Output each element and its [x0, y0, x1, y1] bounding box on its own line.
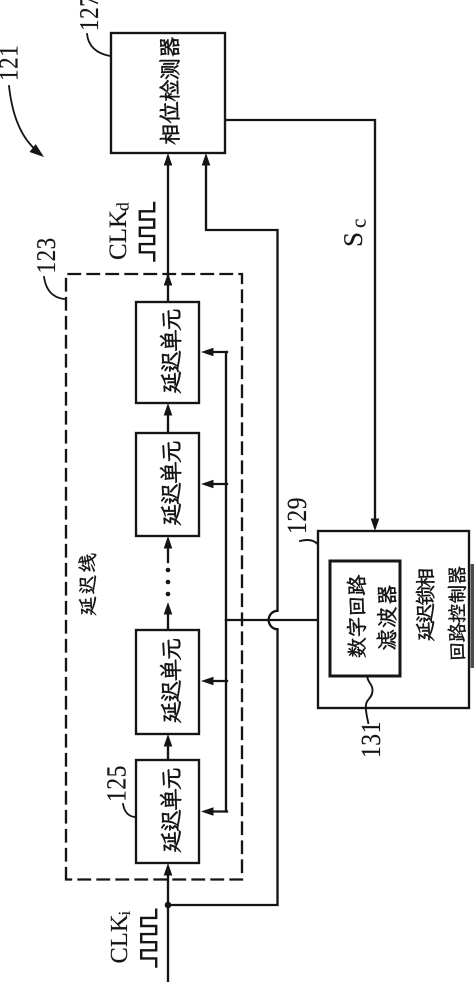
ref number 123	[37, 239, 55, 272]
label 延迟单元 in DU4	[160, 769, 181, 852]
block delay unit DU1	[136, 302, 199, 403]
dashed box delay line 123	[66, 274, 242, 880]
arrowhead into delay unit 4	[164, 863, 173, 876]
label CLKd	[109, 210, 126, 259]
ref number 131	[362, 723, 381, 756]
leader arrow for figure ref 121	[9, 86, 37, 151]
label 数字回路 line1 in filter 131	[347, 575, 366, 657]
block phase detector 127	[111, 33, 225, 153]
arrowhead on CLKd wire at dashed box exit	[164, 273, 173, 286]
label 滤波器 line2 in filter 131	[377, 586, 397, 650]
wire connector from control bus down to controller 129	[226, 619, 318, 621]
arrowhead feed into phase detector	[202, 153, 211, 166]
wire control branch into delay unit 4	[207, 810, 227, 812]
label 延迟单元 in DU2	[160, 442, 181, 525]
block delay unit DU2	[136, 433, 199, 536]
arrowhead control into DU1	[201, 348, 214, 357]
ref number 127	[80, 0, 98, 29]
scan artifact grey band at page edge	[471, 564, 474, 668]
wire ellipsis dots to delay unit 2	[167, 541, 169, 562]
block delay unit DU4 (125)	[136, 760, 199, 863]
ref number 125	[107, 766, 126, 799]
wire control branch into delay unit 1	[207, 351, 227, 353]
leader for 129 to controller box	[300, 540, 318, 544]
arrowhead before ellipsis	[164, 602, 173, 615]
clock waveform glyph CLKi	[141, 910, 156, 967]
label 相位检测器 in phase detector	[159, 37, 179, 144]
wire delay unit 2 to delay unit 1	[167, 408, 169, 433]
label 延迟锁相 line1 in controller 129	[416, 569, 435, 641]
wire delay unit 3 toward ellipsis dots	[167, 608, 169, 630]
leader for 125 to delay unit 4	[123, 804, 135, 817]
label 延迟单元 in DU1	[160, 310, 181, 393]
arrowhead Sc into controller 129	[371, 519, 380, 532]
arrowhead into delay unit 1	[164, 403, 173, 416]
clock waveform glyph CLKd	[140, 203, 154, 261]
ellipsis dots between delay units	[166, 592, 171, 597]
wire Sc from phase detector output to controller 129	[225, 120, 375, 525]
wire control branch into delay unit 2	[207, 483, 227, 485]
block DLL controller 129	[318, 531, 469, 708]
label 延迟单元 in DU3	[160, 639, 181, 722]
label 回路控制器 line2 in controller 129	[447, 567, 466, 660]
arrowhead control into DU3	[201, 677, 214, 686]
arrowhead into delay unit 3	[164, 734, 173, 747]
leader squiggle for 131 to filter box	[366, 676, 373, 724]
wire delay unit 4 to delay unit 3	[167, 739, 169, 760]
label CLKi	[111, 915, 127, 963]
wire CLKi input from left edge to junction and into delay unit 125	[167, 868, 169, 982]
block digital loop filter 131	[330, 561, 400, 676]
arrowhead into delay unit 2	[164, 536, 173, 549]
arrowhead control into DU4	[201, 807, 214, 816]
node junction dot on CLKi wire	[165, 902, 172, 909]
ref number 129	[288, 499, 307, 532]
wire reference feed from junction down, across bottom (with hop) and up into phase detector second input	[168, 160, 278, 905]
wire control branch into delay unit 3	[207, 680, 227, 682]
arrowhead control into DU2	[201, 480, 214, 489]
arrowhead CLKd into phase detector	[164, 153, 173, 166]
leader for 127 to phase detector	[87, 34, 110, 56]
label 延迟线 delay line	[78, 554, 96, 616]
wire control bus from controller to delay units	[225, 352, 227, 812]
wire CLKd from last delay unit to phase detector	[167, 158, 169, 302]
leader for 123 to dashed box	[44, 277, 64, 299]
ref number 121	[0, 47, 17, 79]
label Sc	[344, 234, 362, 246]
block delay unit DU3	[136, 630, 199, 734]
